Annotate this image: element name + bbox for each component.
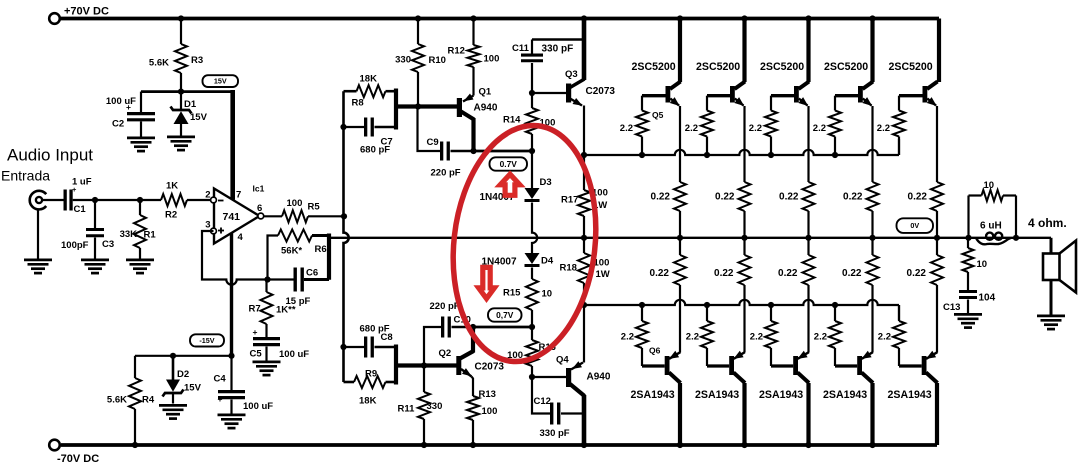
wire damping loop right [1015,196,1017,238]
wire R10 bottom [417,72,419,107]
resistor 0.22 bottom #4 [867,255,879,285]
transistor 2SC5200 #3 bar [794,86,799,103]
wire collector1 top to rail [678,19,682,83]
wire 0.22 bottom lead #2 [743,238,745,255]
resistor R17 [578,190,590,216]
svg-text:15V: 15V [214,77,227,86]
wire C1 to R2 [73,199,161,201]
RCA jack pin [36,197,42,203]
svg-text:C11: C11 [512,43,530,54]
resistor 2.2 base top #3 lead [770,96,772,111]
node rail-R12 [470,15,476,21]
speaker box [1043,254,1060,281]
node +15V [178,89,184,95]
svg-text:D4: D4 [541,256,554,267]
resistor R4 lead top [134,356,136,378]
svg-text:100 uF: 100 uF [243,401,273,412]
resistor 2.2 base top #3 [765,111,777,137]
ground R1 [126,259,154,262]
red arrow down annotation [479,267,495,298]
wire 2.2 to base #3 [770,348,772,366]
wire base4 top (thick) [835,94,858,97]
wire base2 bottom [707,364,729,367]
wire C10 right lead [452,326,474,328]
red arrow up annotation [500,174,520,195]
minus sign [218,200,224,202]
wire 0.22 bottom lead #1 [679,238,681,255]
transistor 2SC5200 #5 bar [923,86,928,103]
Q2 emitter diagonal [461,369,472,377]
svg-text:R9: R9 [365,369,377,380]
wire 0.22 bottom lead #4 [871,238,873,255]
pin2 circle [211,197,217,203]
wire -rail corner to collector [935,383,939,445]
wire emitter3 down [807,106,809,182]
wire 2.2 to bias bus #4 [834,137,836,156]
resistor R14 [526,108,538,134]
resistor 0.22 bottom #3 [803,255,815,285]
resistor 2.2 base bottom #3 lead [770,305,772,321]
wire 2.2 to bias bus #1 [641,137,643,156]
wire R2 to pin2 [187,199,211,201]
2SC5200 #3 collector diagonal [799,82,810,90]
resistor 0.22 bottom #5 [931,255,943,285]
-70V DC terminal [49,440,60,451]
capacitor C6 [294,268,297,292]
svg-text:R14: R14 [503,115,521,126]
node bias bus #3 [768,152,774,158]
svg-text:R13: R13 [479,389,496,400]
wire R5 to node [308,215,344,217]
svg-text:2SA1943: 2SA1943 [759,389,803,401]
resistor 2.2 base top #1 lead [641,96,643,111]
2SA1943 #3 collector diagonal [798,373,810,384]
transistor 2SA1943 #1 bar [665,356,670,375]
wire C13 to ground [967,300,969,314]
wire R14 bottom [531,134,533,151]
Q2 collector diagonal [460,351,474,359]
node R11 rail [421,442,427,448]
resistor R2 [161,194,187,206]
resistor 2.2 base top #2 lead [706,96,708,111]
svg-text:R2: R2 [165,210,177,221]
svg-text:18K: 18K [360,74,378,85]
svg-text:18K: 18K [359,396,377,407]
svg-text:C2073: C2073 [586,86,616,97]
2SC5200 #5 collector diagonal [927,82,938,90]
capacitor C3 lead [94,200,96,228]
svg-text:R3: R3 [191,55,203,66]
wire C6 left lead [268,278,294,280]
transistor 2SA1943 #3 bar [793,356,798,375]
wire R12 top [472,19,474,46]
node R1 tap [137,197,143,203]
resistor R18 top lead [583,238,585,253]
node bias bus #4 [832,152,838,158]
svg-text:+: + [253,327,258,337]
transistor Q1 bar [457,98,462,117]
svg-text:R5: R5 [308,202,321,213]
svg-text:4: 4 [238,232,244,243]
2SA1943 #5 collector diagonal [926,373,938,384]
wire R6 right lead [312,234,329,237]
resistor 2.2 base top #4 lead [834,96,836,111]
node C7 tap [340,124,346,130]
wire Q4 emitter up [583,305,585,363]
Q3 emitter diagonal [570,99,582,106]
wire C8 right lead [375,346,397,349]
2SA1943 #2 emitter diagonal [734,352,745,359]
capacitor C4 lead [230,356,232,390]
upper network bar [394,89,398,130]
wire R10 top [417,19,419,45]
wire R9 right [386,381,397,384]
wire 2.2 to bias bus #3 [770,137,772,156]
2SC5200 #2 collector diagonal [735,82,746,90]
wire 2.2 to bias bus #5 [898,137,900,156]
2SA1943 #2 collector diagonal [734,373,746,384]
node VAS drive [341,213,347,219]
wire emitter3 up (bottom) [807,285,809,353]
svg-text:15V: 15V [190,112,208,123]
wire collector3 to -rail [806,383,810,445]
wire emitter2 up (bottom) [743,285,745,353]
svg-text:R17: R17 [561,195,578,206]
ground C5 [253,361,281,364]
2SC5200 #1 collector diagonal [670,82,681,90]
svg-text:0.22: 0.22 [843,192,863,203]
svg-text:2.2: 2.2 [877,123,890,134]
Q2 collector vertical [471,327,475,353]
resistor R8 [357,85,386,97]
2SA1943 #5 emitter diagonal [926,352,937,359]
capacitor C9 left leg [418,107,441,152]
wire 0.22 to bus #4 [871,211,873,238]
wire Q3 base [532,92,566,94]
Q4 collector diagonal [570,384,585,396]
node bias bus bottom #3 [768,302,774,308]
svg-text:100 uF: 100 uF [106,96,136,107]
wire collector4 top to rail [870,19,874,83]
svg-text:2.2: 2.2 [814,332,827,343]
svg-text:330: 330 [395,55,411,66]
wire rail to Q3 (thick) [582,19,587,81]
resistor 2.2 base top #5 lead [898,96,900,111]
node rail col2 [741,15,747,21]
svg-text:C5: C5 [250,349,263,360]
capacitor C10 [441,317,444,338]
resistor 0.22 top #4 [867,182,879,211]
svg-text:1 uF: 1 uF [72,177,92,188]
node bias chain top [529,148,535,154]
resistor R5 [282,210,308,222]
resistor 2.2 base top #4 [829,111,841,137]
resistor 2.2 base bottom #1 [636,321,648,348]
svg-text:C3: C3 [102,239,114,250]
svg-text:2SA1943: 2SA1943 [888,389,932,401]
capacitor C12 [550,403,553,425]
wire rail corner to collector Q5e [937,19,941,83]
wire bus to speaker [1050,238,1053,254]
resistor R1 [134,215,146,248]
node bus col #4 [869,235,875,241]
wire Q2 base (thick) [396,363,457,367]
svg-text:2: 2 [205,190,210,201]
transistor 2SC5200 #4 bar [858,86,863,103]
node C3 tap [92,197,98,203]
resistor 2.2 base bottom #2 [701,321,713,348]
wire R12 bottom [472,67,474,96]
label box -15V [190,334,224,346]
wire collector4 to -rail [870,383,874,445]
node C8 tap [340,344,346,350]
svg-text:R11: R11 [398,404,416,415]
svg-text:100pF: 100pF [61,240,89,251]
svg-text:100 uF: 100 uF [279,349,309,360]
wire Q3 emitter down [583,106,585,156]
node bus col #3 [805,235,811,241]
svg-text:R6: R6 [315,244,327,255]
svg-text:2SA1943: 2SA1943 [631,389,675,401]
RCA jack outer [30,191,46,210]
capacitor C4 [218,390,245,393]
svg-text:2SC5200: 2SC5200 [696,61,740,73]
svg-text:10: 10 [977,259,988,270]
svg-text:+70V DC: +70V DC [64,6,109,18]
svg-text:C8: C8 [381,332,393,343]
svg-text:Q6: Q6 [649,346,661,356]
ground C4 [218,414,246,417]
wire top bias bus end [898,139,900,155]
inductor 6uH [976,238,1011,245]
wire C4 to ground [230,400,232,414]
capacitor C11 lead [531,40,533,54]
svg-text:C4: C4 [214,374,227,385]
wire C3 to ground [94,238,96,259]
resistor R18 [578,253,590,283]
ground input jack [24,259,52,262]
svg-text:6 uH: 6 uH [980,221,1002,232]
svg-text:R4: R4 [142,395,155,406]
capacitor C13 [959,290,977,293]
resistor R9 [354,376,386,388]
label box 0,7V lower [488,308,522,321]
node bias bus bottom #1 [639,302,645,308]
wire collector to bias chain [474,150,533,153]
svg-text:0.22: 0.22 [842,268,862,279]
wire base1 bottom [642,364,665,367]
2SC5200 #2 emitter diagonal [735,99,744,106]
wire damping loop top-right [1003,194,1016,196]
wire C6 right lead [304,278,329,281]
node R17 bus [581,235,587,241]
resistor R15 [526,279,538,310]
svg-text:1K: 1K [166,181,178,192]
svg-text:2.2: 2.2 [620,123,633,134]
transistor 2SC5200 #1 bar [666,86,671,103]
svg-text:2.2: 2.2 [750,332,763,343]
wire R3 top [180,19,182,45]
svg-text:R18: R18 [560,263,577,274]
resistor 2.2 base bottom #3 [765,321,777,348]
svg-text:D2: D2 [177,369,189,380]
wire +15V to pin7 (thick) [230,90,235,200]
node bias bus #2 [704,152,710,158]
speaker cone [1060,241,1077,293]
transistor Q3 bar [566,84,571,103]
node bias bus bottom #2 [704,302,710,308]
svg-text:A940: A940 [587,372,611,383]
wire jack to C1 [43,199,64,201]
svg-text:33K: 33K [120,229,138,240]
wire zobel to C13 [967,272,969,290]
svg-text:2SC5200: 2SC5200 [760,61,804,73]
svg-text:Audio Input: Audio Input [7,146,93,165]
node -rail col1 [677,442,683,448]
wire R11 to rail [423,419,425,445]
svg-text:C13: C13 [943,302,960,313]
wire C11 bottom [531,63,533,93]
svg-text:2SC5200: 2SC5200 [632,61,676,73]
2SC5200 #5 emitter diagonal [927,99,936,106]
transistor Q4 bar [566,368,571,387]
svg-text:R8: R8 [352,98,364,109]
wire C7 right lead [375,126,397,129]
svg-text:104: 104 [979,293,996,304]
svg-text:0.22: 0.22 [715,192,735,203]
ground D1 [167,136,195,139]
wire R4 to rail [134,409,136,445]
node bias bus bottom #4 [832,302,838,308]
Q1 collector vertical [471,118,475,152]
resistor 10 damping [982,190,1004,201]
resistor 2.2 base bottom #4 [829,321,841,348]
svg-text:741: 741 [223,211,241,223]
resistor R6 left lead [268,236,279,280]
capacitor C2 lead [140,92,142,112]
svg-text:100: 100 [484,54,500,65]
wire D4 to R15 [531,268,533,280]
svg-text:2.2: 2.2 [813,123,826,134]
svg-text:2.2: 2.2 [686,332,699,343]
resistor 2.2 base top #1 [636,111,648,137]
svg-text:2.2: 2.2 [685,123,698,134]
resistor R13 [467,396,479,420]
wire R3 bottom [180,73,182,92]
resistor R10 [412,44,424,72]
wire 2.2 to base #5 [898,348,900,366]
resistor 2.2 base bottom #2 lead [706,305,708,321]
resistor R11 [418,392,430,419]
svg-text:0.22: 0.22 [651,192,671,203]
svg-text:Q3: Q3 [565,69,578,80]
wire 0.22 to bus #3 [807,211,809,238]
wire collector3 top to rail [806,19,810,83]
wire collector2 top to rail [742,19,746,83]
capacitor C9 [440,142,443,161]
2SC5200 #4 emitter diagonal [863,99,872,106]
node Q2 collector [470,324,476,330]
svg-text:220 pF: 220 pF [430,301,460,312]
svg-text:5.6K: 5.6K [107,395,127,406]
wire speaker to ground [1050,280,1053,315]
capacitor C1 [64,190,67,211]
svg-text:-15V: -15V [199,336,214,345]
node R4 rail [132,442,138,448]
ground D2 [159,404,187,407]
Q1 emitter diagonal [463,96,474,102]
capacitor C11 [521,53,543,56]
wire base2 top (thick) [707,94,730,97]
wire R15 bottom [531,310,533,327]
wire base3 bottom [771,364,793,367]
resistor R11 lead [423,366,425,393]
wire emitter5 up (bottom) [936,285,938,353]
svg-text:0.22: 0.22 [778,268,798,279]
svg-text:C6: C6 [306,268,318,279]
svg-text:0.22: 0.22 [650,268,670,279]
resistor R12 [468,45,480,67]
wire damping loop top-left [969,194,982,196]
node R13 rail [470,442,476,448]
2SA1943 #3 emitter diagonal [798,352,809,359]
label box 0V [897,218,934,233]
wire emitter1 down [679,106,681,182]
wire D3 to bus hop [532,203,537,254]
svg-text:Q5: Q5 [652,110,664,120]
wire R18 bottom [583,283,585,305]
svg-text:4 ohm.: 4 ohm. [1028,216,1067,230]
svg-text:330 pF: 330 pF [542,44,574,55]
wire base5 bottom [899,364,922,367]
wire 0.22 bottom lead #3 [807,238,809,255]
wire pin4 down [230,233,233,356]
wire emitter4 down [871,106,873,182]
capacitor C7 left lead [344,126,365,128]
node top bias bus [581,152,587,158]
resistor 0.22 top #1 [674,182,686,211]
zener D2 lead [172,356,175,380]
svg-text:C2073: C2073 [475,362,505,373]
ground speaker [1037,315,1065,318]
node -rail col4 [869,442,875,448]
resistor 0.22 bottom #2 [739,255,751,285]
svg-text:0,7V: 0,7V [496,310,514,320]
resistor R16 [526,340,538,366]
wire top bias bus [584,150,899,155]
svg-text:0.22: 0.22 [714,268,734,279]
wire to D3 [531,151,533,188]
svg-text:D1: D1 [184,99,197,110]
resistor 0.22 bottom #1 [674,255,686,285]
capacitor C3 [86,228,104,231]
op-amp U1 triangle [214,189,260,244]
svg-text:2.2: 2.2 [621,332,634,343]
wire jack ground stem [37,210,39,259]
node rail col4 [869,15,875,21]
wire 2.2 to base #1 [641,348,643,366]
pin6 circle [258,213,264,219]
wire Q4 base [532,376,566,378]
svg-text:10: 10 [984,180,995,191]
capacitor C10 leg [424,327,441,366]
wire pin6 [264,215,282,217]
resistor 10 zobel lead [967,238,969,248]
svg-text:680 pF: 680 pF [360,145,390,156]
transistor 2SC5200 #2 bar [730,86,735,103]
label box 15V [203,75,239,87]
node bias bus #1 [639,152,645,158]
